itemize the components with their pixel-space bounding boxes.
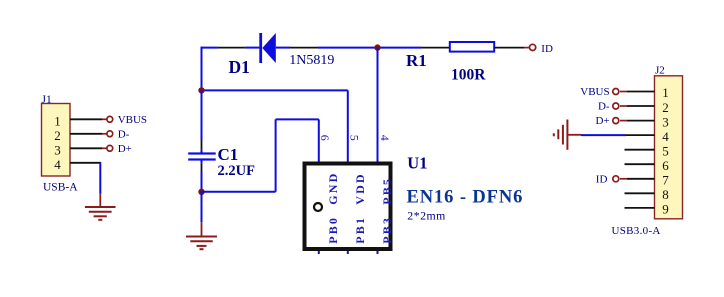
svg-text:VBUS: VBUS <box>580 86 609 98</box>
svg-text:7: 7 <box>662 173 669 188</box>
svg-text:J2: J2 <box>655 65 665 77</box>
svg-text:R1: R1 <box>406 51 427 70</box>
svg-text:1N5819: 1N5819 <box>289 53 334 68</box>
svg-text:D-: D- <box>118 128 130 140</box>
svg-text:EN16 - DFN6: EN16 - DFN6 <box>407 188 524 208</box>
svg-text:GND: GND <box>326 172 340 205</box>
svg-text:ID: ID <box>596 173 608 185</box>
svg-text:2: 2 <box>54 128 61 143</box>
svg-text:C1: C1 <box>218 145 239 164</box>
svg-text:PB5: PB5 <box>380 177 394 205</box>
svg-text:D1: D1 <box>229 57 250 77</box>
svg-text:4: 4 <box>662 129 669 144</box>
svg-text:PB3: PB3 <box>380 216 394 244</box>
svg-text:D-: D- <box>598 101 610 113</box>
svg-text:PB0: PB0 <box>326 216 340 244</box>
svg-text:1: 1 <box>662 85 669 100</box>
svg-text:VDD: VDD <box>353 172 367 205</box>
svg-text:3: 3 <box>662 114 669 129</box>
svg-text:D+: D+ <box>118 143 132 155</box>
svg-text:PB1: PB1 <box>353 216 367 244</box>
svg-text:2: 2 <box>662 100 669 115</box>
svg-text:2.2UF: 2.2UF <box>218 163 256 179</box>
svg-text:3: 3 <box>54 142 61 157</box>
svg-text:USB-A: USB-A <box>43 181 78 193</box>
svg-text:9: 9 <box>662 202 669 217</box>
svg-text:5: 5 <box>348 135 362 141</box>
svg-text:6: 6 <box>662 158 669 173</box>
svg-text:J1: J1 <box>42 94 52 106</box>
svg-text:VBUS: VBUS <box>118 114 147 126</box>
svg-text:U1: U1 <box>407 153 427 172</box>
svg-text:USB3.0-A: USB3.0-A <box>612 225 661 237</box>
svg-text:1: 1 <box>54 113 61 128</box>
svg-text:4: 4 <box>54 157 61 172</box>
svg-text:D+: D+ <box>595 115 609 127</box>
svg-text:4: 4 <box>378 135 392 141</box>
svg-text:100R: 100R <box>451 66 486 83</box>
svg-text:5: 5 <box>662 144 669 159</box>
svg-text:6: 6 <box>318 135 332 141</box>
svg-text:2*2mm: 2*2mm <box>407 209 446 223</box>
svg-text:ID: ID <box>541 43 553 55</box>
svg-text:8: 8 <box>662 187 669 202</box>
